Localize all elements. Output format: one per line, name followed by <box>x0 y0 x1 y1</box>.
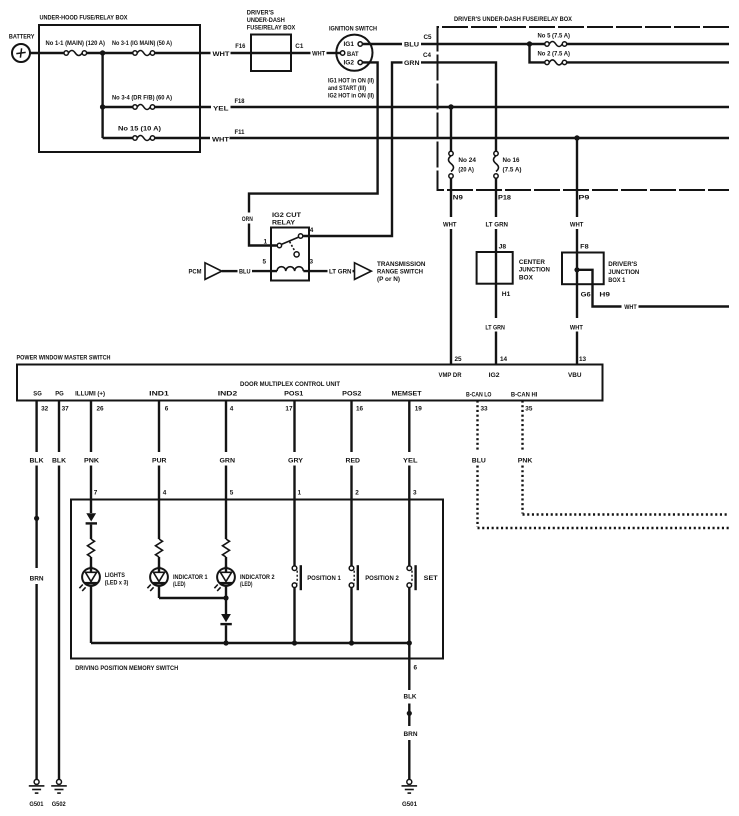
vertical bus from node A <box>101 53 103 138</box>
driving position memory switch box <box>71 500 443 672</box>
svg-text:POS2: POS2 <box>342 390 362 397</box>
svg-text:INDICATOR 2: INDICATOR 2 <box>240 575 275 581</box>
svg-text:RANGE SWITCH: RANGE SWITCH <box>377 269 423 276</box>
svg-text:YEL: YEL <box>213 106 229 113</box>
svg-text:G501: G501 <box>29 801 43 808</box>
node B junction <box>100 104 105 109</box>
svg-text:ORN: ORN <box>242 216 253 223</box>
wire BLK to splice <box>408 704 410 727</box>
wire P18 down <box>495 178 497 217</box>
svg-text:POWER WINDOW MASTER SWITCH: POWER WINDOW MASTER SWITCH <box>17 354 111 361</box>
svg-text:BLK: BLK <box>52 457 66 464</box>
wire N9 WHT to pin 25 <box>450 229 452 365</box>
ground bus wire <box>91 642 409 644</box>
svg-text:MEMSET: MEMSET <box>392 390 422 397</box>
label IG1 HOT note <box>328 77 374 99</box>
svg-text:5: 5 <box>230 489 234 496</box>
svg-text:3: 3 <box>310 259 314 266</box>
svg-text:ILLUMI (+): ILLUMI (+) <box>75 390 105 397</box>
wire drop to No 2 fuse <box>530 44 546 62</box>
wire G6 WHT to pin 13 <box>576 332 578 365</box>
splice node SG <box>34 516 39 521</box>
svg-text:UNDER-DASH: UNDER-DASH <box>247 17 285 24</box>
svg-text:DRIVING POSITION MEMORY SWITCH: DRIVING POSITION MEMORY SWITCH <box>75 665 178 672</box>
svg-text:LIGHTS: LIGHTS <box>105 573 125 579</box>
svg-text:FUSE/RELAY BOX: FUSE/RELAY BOX <box>247 25 296 32</box>
svg-text:LT GRN: LT GRN <box>486 222 509 229</box>
wire POS1 upper <box>293 401 295 453</box>
svg-text:16: 16 <box>356 405 364 412</box>
wire F18 drop to fuse No 24 <box>450 107 452 151</box>
svg-text:F11: F11 <box>235 129 245 136</box>
wire switch 1 to bus <box>293 587 295 643</box>
wire fuse F18 row <box>155 106 211 108</box>
svg-text:WHT: WHT <box>624 304 637 311</box>
driver's junction box 1 <box>562 253 640 285</box>
LED lights (LED x 3) <box>79 566 128 591</box>
svg-text:26: 26 <box>97 405 105 412</box>
svg-text:VBU: VBU <box>568 372 582 379</box>
svg-text:WHT: WHT <box>443 222 457 229</box>
switch position 2 <box>349 565 399 590</box>
node F11 junction <box>574 135 579 140</box>
svg-text:No 2 (7.5 A): No 2 (7.5 A) <box>538 51 571 58</box>
svg-text:(7.5 A): (7.5 A) <box>503 166 522 173</box>
svg-text:5: 5 <box>263 259 267 266</box>
wire IND2 upper <box>225 401 227 453</box>
svg-text:BRN: BRN <box>404 731 418 738</box>
svg-text:PCM: PCM <box>189 269 202 276</box>
svg-text:IG1: IG1 <box>344 41 355 48</box>
svg-text:6: 6 <box>414 664 418 671</box>
wire PG upper <box>58 401 60 453</box>
svg-text:F16: F16 <box>235 43 245 50</box>
svg-text:SET: SET <box>424 576 438 582</box>
svg-text:DRIVER'S UNDER-DASH FUSE/RELAY: DRIVER'S UNDER-DASH FUSE/RELAY BOX <box>454 16 573 23</box>
svg-text:IG2: IG2 <box>489 372 500 379</box>
svg-text:BLK: BLK <box>404 693 417 700</box>
wire IG1 to BLU <box>362 43 402 45</box>
svg-text:P9: P9 <box>578 195 590 202</box>
svg-text:PG: PG <box>55 390 64 397</box>
fuse No 5 (7.5 A) <box>538 33 571 47</box>
wire PCM to BLU <box>222 270 238 272</box>
svg-text:POS1: POS1 <box>284 390 304 397</box>
splice node <box>407 711 412 716</box>
switch position 1 <box>292 565 341 590</box>
wire fuse to WHT label <box>155 52 211 54</box>
wire LED2 to IND2 node <box>159 597 226 599</box>
wire B-CAN LO dotted <box>478 401 730 529</box>
svg-text:G6: G6 <box>581 291 592 298</box>
LED indicator 2 <box>214 566 275 591</box>
svg-text:BAT: BAT <box>347 51 359 58</box>
ground G502 <box>51 779 67 807</box>
svg-text:WHT: WHT <box>213 51 230 58</box>
svg-text:GRY: GRY <box>288 457 304 464</box>
svg-text:PUR: PUR <box>152 457 167 464</box>
svg-text:(LED x 3): (LED x 3) <box>105 581 129 587</box>
svg-text:BLU: BLU <box>404 42 419 49</box>
svg-text:BLU: BLU <box>239 269 251 276</box>
node F18 junction <box>448 104 453 109</box>
svg-text:JUNCTION: JUNCTION <box>519 266 550 273</box>
svg-text:1: 1 <box>264 239 268 246</box>
svg-text:14: 14 <box>500 356 508 363</box>
wire ORN to relay pin 1 <box>249 224 277 246</box>
wire LT GRN to arrow <box>353 270 355 272</box>
svg-text:J8: J8 <box>499 243 507 250</box>
svg-text:F8: F8 <box>580 243 589 250</box>
svg-text:13: 13 <box>579 356 587 363</box>
svg-text:DRIVER'S: DRIVER'S <box>608 261 638 268</box>
svg-text:No 16: No 16 <box>503 157 520 164</box>
node bus junction 4 <box>407 640 412 645</box>
wire to node A <box>87 52 133 54</box>
svg-text:B-CAN LO: B-CAN LO <box>466 392 492 399</box>
ground G501 bottom <box>402 779 418 807</box>
wire P9 down <box>576 138 578 217</box>
resistor R2 <box>156 539 163 557</box>
wire MEMSET upper <box>408 401 410 453</box>
svg-text:INDICATOR 1: INDICATOR 1 <box>173 575 208 581</box>
LED indicator 1 <box>147 566 208 591</box>
svg-text:LT GRN: LT GRN <box>485 324 505 331</box>
fuse No 3-1 (IG MAIN) (50 A) <box>112 40 172 56</box>
svg-text:BOX 1: BOX 1 <box>608 277 625 284</box>
wire coil to LT GRN <box>303 270 327 272</box>
svg-text:UNDER-HOOD FUSE/RELAY BOX: UNDER-HOOD FUSE/RELAY BOX <box>40 14 129 21</box>
node bus junction 2 <box>292 640 297 645</box>
battery B1 <box>9 34 35 62</box>
svg-text:WHT: WHT <box>212 137 229 144</box>
wire WHT to BAT pin <box>327 52 341 54</box>
svg-text:WHT: WHT <box>312 51 325 58</box>
wire P9 to driver's junction box <box>576 229 578 318</box>
wire branch to H9 <box>577 270 622 307</box>
node IND2 junction <box>223 595 228 600</box>
svg-text:IG2 HOT in ON (II): IG2 HOT in ON (II) <box>328 93 374 100</box>
svg-text:IG2: IG2 <box>344 60 355 67</box>
power window master switch box <box>17 354 603 400</box>
svg-text:35: 35 <box>525 405 533 412</box>
node bus junction 1 <box>223 640 228 645</box>
wire H9 WHT output <box>639 305 730 307</box>
svg-text:IG1 HOT in ON (II): IG1 HOT in ON (II) <box>328 77 374 84</box>
svg-text:IG2 CUT: IG2 CUT <box>272 212 301 219</box>
wire SG middle <box>35 466 37 569</box>
svg-text:C5: C5 <box>424 34 432 41</box>
fuse No 1-1 (MAIN) (120 A) <box>46 40 106 56</box>
wire WHT to C1 box <box>231 52 311 54</box>
svg-text:LT GRN: LT GRN <box>329 269 352 276</box>
svg-text:No 3-1 (IG MAIN) (50 A): No 3-1 (IG MAIN) (50 A) <box>112 40 172 47</box>
svg-text:32: 32 <box>41 405 49 412</box>
svg-text:No 3-4 (DR F/B) (60 A): No 3-4 (DR F/B) (60 A) <box>112 95 172 102</box>
relay IG2 cut relay K1 <box>271 212 309 281</box>
relay actuator dashed link <box>290 242 300 257</box>
svg-text:H9: H9 <box>599 291 610 298</box>
wire LED2 down <box>158 586 160 599</box>
wire pin 6 exit <box>408 643 410 690</box>
svg-text:19: 19 <box>415 405 423 412</box>
ignition switch SW1 <box>329 26 377 71</box>
svg-text:No 1-1 (MAIN) (120 A): No 1-1 (MAIN) (120 A) <box>46 40 106 47</box>
svg-text:WHT: WHT <box>570 222 584 229</box>
wire GRN to box C4 <box>421 61 439 63</box>
center junction box <box>477 252 551 284</box>
svg-text:RELAY: RELAY <box>272 220 296 227</box>
svg-text:P18: P18 <box>498 195 512 202</box>
wire B-CAN HI dotted <box>523 401 730 515</box>
svg-text:WHT: WHT <box>570 324 583 331</box>
wire SG upper <box>35 401 37 453</box>
svg-text:25: 25 <box>455 356 463 363</box>
diode D2 <box>220 614 231 624</box>
svg-text:BLU: BLU <box>472 457 486 464</box>
svg-text:No 5 (7.5 A): No 5 (7.5 A) <box>538 33 571 40</box>
wire SG lower <box>35 584 37 779</box>
wire BLU to box C5 <box>421 43 439 45</box>
svg-text:G502: G502 <box>52 801 66 808</box>
wire MEMSET to switch <box>408 466 410 567</box>
wire F11 long line <box>230 137 730 139</box>
wire switch 2 to bus <box>350 587 352 643</box>
wire fuse to WHT <box>155 137 210 139</box>
wire LED3 to diode <box>225 586 227 615</box>
svg-text:B-CAN HI: B-CAN HI <box>511 392 538 399</box>
svg-text:TRANSMISSION: TRANSMISSION <box>377 261 426 268</box>
svg-text:DRIVER'S: DRIVER'S <box>247 9 275 16</box>
fuse No 16 (7.5 A) <box>494 151 522 178</box>
fuse No 15 (10 A) <box>103 126 161 141</box>
wire LED1 to bus <box>90 586 92 644</box>
svg-text:17: 17 <box>285 405 293 412</box>
fuse No 2 (7.5 A) <box>538 51 571 65</box>
svg-text:PNK: PNK <box>84 457 99 464</box>
driver's under-dash fuse/relay box C1 <box>247 9 296 71</box>
ground G501 left <box>29 779 45 807</box>
wire POS2 to switch <box>350 466 352 567</box>
svg-text:IND1: IND1 <box>149 390 169 397</box>
svg-text:and START (III): and START (III) <box>328 85 366 92</box>
svg-text:BRN: BRN <box>30 575 44 582</box>
under-hood fuse/relay box <box>39 14 200 152</box>
wire IND2 to resistor <box>225 466 227 540</box>
wire BRN to ground <box>408 740 410 779</box>
svg-text:PNK: PNK <box>518 457 533 464</box>
svg-text:4: 4 <box>310 227 314 234</box>
svg-text:IND2: IND2 <box>218 390 238 397</box>
PCM arrow <box>189 263 222 280</box>
wire BLU to relay coil <box>252 270 277 272</box>
wire IND1 to resistor <box>158 466 160 540</box>
svg-text:JUNCTION: JUNCTION <box>608 269 639 276</box>
svg-text:G501: G501 <box>402 801 417 808</box>
svg-text:F18: F18 <box>235 98 245 105</box>
fuse No 3-4 (DR F/B) (60 A) <box>103 95 172 110</box>
relay contact pins <box>277 234 303 248</box>
node junction in box <box>574 267 579 272</box>
svg-text:SG: SG <box>33 390 42 397</box>
relay coil <box>277 267 303 271</box>
resistor R3 <box>223 539 230 557</box>
svg-text:1: 1 <box>298 489 302 496</box>
relay blade <box>281 237 298 244</box>
svg-text:(LED): (LED) <box>173 582 186 588</box>
svg-text:33: 33 <box>481 405 489 412</box>
wire battery to fuse box <box>30 52 64 54</box>
wire POS2 upper <box>350 401 352 453</box>
wire resistor to LED <box>90 557 92 569</box>
driver's under-dash fuse/relay box (right) <box>438 16 730 190</box>
svg-text:DOOR MULTIPLEX CONTROL UNIT: DOOR MULTIPLEX CONTROL UNIT <box>240 381 340 388</box>
svg-text:C1: C1 <box>295 43 303 50</box>
node A junction <box>100 50 105 55</box>
node C5 junction <box>527 41 532 46</box>
wire ILLUMI to memory box <box>90 466 92 514</box>
svg-text:CENTER: CENTER <box>519 259 545 266</box>
svg-text:BLK: BLK <box>30 457 44 464</box>
wire set switch to bus <box>408 587 410 643</box>
svg-text:C4: C4 <box>423 52 431 59</box>
svg-text:(P or N): (P or N) <box>377 276 400 283</box>
svg-text:4: 4 <box>230 405 234 412</box>
svg-text:POSITION 1: POSITION 1 <box>307 576 341 582</box>
fuse No 24 (20 A) <box>449 151 477 178</box>
svg-text:BOX: BOX <box>519 274 534 281</box>
wire F18 long line <box>231 106 730 108</box>
svg-text:BATTERY: BATTERY <box>9 34 35 41</box>
svg-text:POSITION 2: POSITION 2 <box>365 576 399 582</box>
wire PG lower <box>58 466 60 780</box>
svg-text:3: 3 <box>413 489 417 496</box>
diode D1 illumination <box>86 513 97 523</box>
svg-text:7: 7 <box>94 489 98 496</box>
wire POS1 to switch <box>293 466 295 567</box>
wire GRN down to relay pin 4 <box>303 62 402 236</box>
svg-text:GRN: GRN <box>220 457 236 464</box>
wire ILLUMI upper <box>90 401 92 453</box>
wire resistor to LED <box>158 557 160 569</box>
svg-text:IGNITION SWITCH: IGNITION SWITCH <box>329 26 377 33</box>
svg-text:RED: RED <box>346 457 361 464</box>
wire diode to resistor <box>90 525 92 539</box>
svg-text:N9: N9 <box>453 195 464 202</box>
svg-text:H1: H1 <box>502 291 511 298</box>
svg-text:4: 4 <box>163 489 167 496</box>
svg-text:YEL: YEL <box>403 457 418 464</box>
svg-text:2: 2 <box>355 489 359 496</box>
wire IND1 upper <box>158 401 160 453</box>
svg-text:37: 37 <box>62 405 70 412</box>
wire H1 LT GRN to pin 14 <box>495 332 497 365</box>
wire No 2 output <box>567 61 729 63</box>
svg-text:(20 A): (20 A) <box>458 166 474 173</box>
svg-text:No 15 (10 A): No 15 (10 A) <box>118 126 161 133</box>
wire No 5 output <box>567 43 729 45</box>
wire diode to bus <box>225 625 227 643</box>
transmission range switch arrow <box>355 261 426 283</box>
svg-text:VMP DR: VMP DR <box>439 372 462 379</box>
svg-text:(LED): (LED) <box>240 582 253 588</box>
wire P18 to center junction box <box>495 229 497 318</box>
wire N9 down <box>450 178 452 217</box>
switch set <box>407 565 438 590</box>
wire C4 to fuse No 16 <box>439 62 497 151</box>
resistor R1 <box>88 539 95 557</box>
svg-text:No 24: No 24 <box>458 157 476 164</box>
wire IG2 run <box>249 62 378 212</box>
svg-text:GRN: GRN <box>404 60 420 67</box>
svg-text:6: 6 <box>165 405 169 412</box>
wire resistor to LED <box>225 557 227 569</box>
node bus junction 3 <box>349 640 354 645</box>
wire C5 into box <box>439 43 546 45</box>
